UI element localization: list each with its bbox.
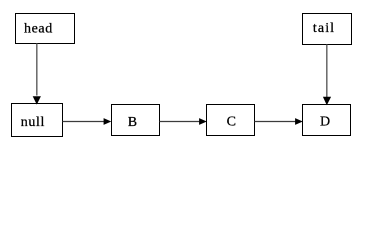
node D (box) [303,105,351,136]
svg-text:D: D [320,114,331,129]
wire head to null (vertical arrow) [33,44,41,105]
node head (box) [16,14,75,44]
wire B to C (horizontal arrow) [160,118,207,125]
node tail (box) [303,14,352,45]
wire null to B (horizontal arrow) [63,118,112,125]
node null (box) [12,104,63,137]
svg-text:tail: tail [313,21,335,36]
wire C to D (horizontal arrow) [255,118,303,125]
node C (box) [207,105,255,136]
svg-text:C: C [227,114,237,129]
svg-text:B: B [128,115,138,130]
wire tail to D (vertical arrow) [323,45,331,106]
node B (box) [112,105,160,136]
svg-text:head: head [24,22,53,37]
svg-text:null: null [21,115,45,130]
